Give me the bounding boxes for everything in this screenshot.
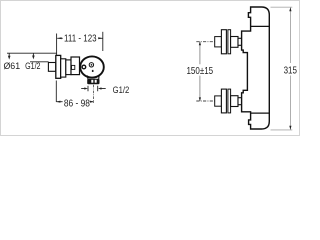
indicator mark below center xyxy=(92,70,94,72)
svg-text:G1/2: G1/2 xyxy=(25,60,41,71)
side bump inside knob xyxy=(82,65,86,69)
svg-text:Ø61: Ø61 xyxy=(3,61,20,71)
top flange plate xyxy=(221,30,226,54)
bottom flange plate xyxy=(221,89,226,113)
G1/2 dim arrows xyxy=(81,88,85,90)
outlet centerline xyxy=(93,85,95,103)
dimension 111-123 line xyxy=(57,37,63,39)
outlet nut (dark) xyxy=(87,79,99,85)
arrow down to Ø61 xyxy=(8,53,10,56)
extension line right (111-123) xyxy=(102,32,104,51)
main body column xyxy=(242,7,270,129)
step piece xyxy=(61,59,66,77)
center cap circle xyxy=(89,63,93,67)
window in block xyxy=(72,65,75,69)
centerline top connection xyxy=(196,41,214,43)
nut G1/2 (left) xyxy=(48,63,55,72)
top small piece xyxy=(238,38,242,45)
dim 86-98 xyxy=(56,101,62,103)
narrow piece xyxy=(66,60,71,75)
top neck xyxy=(231,37,238,48)
nut slots xyxy=(91,80,93,83)
svg-text:111 - 123: 111 - 123 xyxy=(64,33,97,44)
bottom neck xyxy=(231,96,238,107)
centerline bottom connection xyxy=(196,100,214,102)
arrow down to G1/2 xyxy=(32,53,34,56)
connector block xyxy=(71,57,80,75)
svg-text:G1/2: G1/2 xyxy=(113,84,130,95)
wall flange xyxy=(56,55,61,78)
leader line G1/2 to nut xyxy=(30,61,49,63)
center dot xyxy=(91,64,93,66)
svg-text:315: 315 xyxy=(284,64,297,75)
leader line Ø61/G1/2 xyxy=(7,52,57,54)
top flange rim plate xyxy=(228,30,231,54)
extension line left (111-123) xyxy=(56,34,58,56)
dim 150±15 line xyxy=(199,42,201,101)
G1/2 dim ticks xyxy=(88,86,98,92)
svg-text:86 - 98: 86 - 98 xyxy=(64,98,90,109)
bottom flange rim plate xyxy=(228,89,231,113)
border frame xyxy=(1,1,300,136)
top nut xyxy=(215,37,222,47)
cap bottom line xyxy=(251,25,270,27)
315 extension lines xyxy=(271,6,293,8)
svg-text:150±15: 150±15 xyxy=(186,65,213,76)
knob ellipse xyxy=(80,56,104,77)
outlet neck xyxy=(88,76,100,79)
extension line bottom left xyxy=(55,81,57,102)
bottom nut xyxy=(215,96,222,106)
dim 315 line xyxy=(289,8,291,130)
bottom small piece xyxy=(238,98,242,105)
bottom cap top line xyxy=(251,112,270,114)
